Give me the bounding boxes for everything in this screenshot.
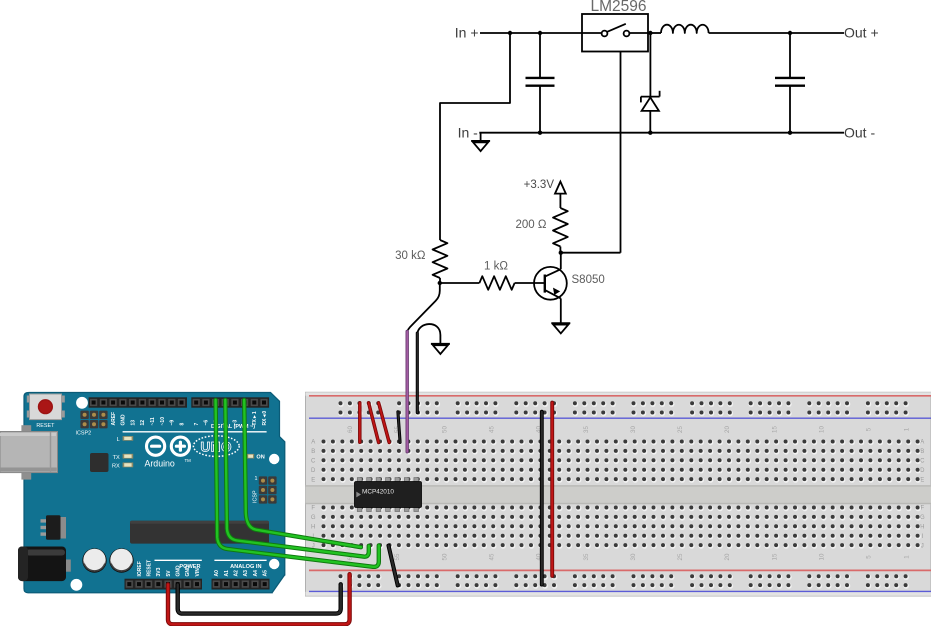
svg-text:C: C (920, 459, 925, 465)
transistor Q1 S8050 (534, 253, 567, 324)
svg-text:~10: ~10 (160, 417, 166, 426)
Arduino power & analog headers (125, 560, 270, 590)
svg-text:20: 20 (724, 553, 731, 560)
svg-text:30: 30 (630, 553, 637, 560)
svg-text:B: B (311, 449, 315, 455)
svg-text:L: L (117, 437, 120, 443)
svg-text:ICSP2: ICSP2 (76, 431, 92, 437)
power +3.3V (555, 182, 566, 194)
wire R2 to Q1 base (515, 282, 545, 284)
svg-text:15: 15 (771, 426, 778, 433)
svg-text:E: E (920, 477, 924, 483)
svg-text:F: F (920, 506, 924, 512)
wire black jumper (blue rail to row A col55) (398, 412, 400, 443)
Arduino LEDs L TX RX (112, 436, 133, 469)
svg-text:IOREF: IOREF (137, 561, 143, 576)
svg-text:Out +: Out + (844, 25, 879, 41)
IC U1 LM2596 (internal switch) (582, 14, 648, 52)
wire LM2596 feedback pin down (620, 52, 622, 253)
svg-text:A0: A0 (214, 570, 220, 577)
svg-text:1: 1 (903, 427, 910, 431)
svg-text:RESET: RESET (36, 423, 55, 429)
svg-text:3V3: 3V3 (156, 567, 162, 576)
wire switch output node (648, 31, 661, 35)
Arduino mounting holes (71, 397, 280, 591)
svg-text:TM: TM (185, 458, 192, 463)
svg-text:In +: In + (455, 25, 479, 41)
svg-text:50: 50 (441, 553, 448, 560)
Arduino ICSP header (253, 476, 277, 504)
svg-text:7: 7 (194, 423, 200, 426)
svg-text:1: 1 (255, 476, 258, 482)
label 1 kOhm (484, 260, 508, 272)
inductor L1 (661, 25, 709, 33)
Arduino crystal (90, 453, 109, 472)
svg-text:RESET: RESET (146, 560, 152, 577)
svg-text:B: B (920, 449, 924, 455)
svg-text:1: 1 (903, 555, 910, 559)
svg-text:1 kΩ: 1 kΩ (484, 260, 508, 272)
svg-text:F: F (311, 506, 315, 512)
svg-text:25: 25 (677, 553, 684, 560)
wire bottom rail In- to Out- (479, 131, 844, 135)
svg-text:+3.3V: +3.3V (524, 179, 555, 191)
svg-text:45: 45 (489, 426, 496, 433)
svg-text:20: 20 (724, 426, 731, 433)
svg-text:45: 45 (489, 553, 496, 560)
node Q1 collector / R3 bottom (559, 251, 621, 255)
label Out - (844, 125, 875, 141)
wire red vertical (top + rail to bottom + rail) (550, 403, 554, 576)
svg-text:50: 50 (441, 426, 448, 433)
svg-text:15: 15 (771, 553, 778, 560)
svg-text:GND: GND (121, 414, 127, 426)
svg-text:D: D (311, 468, 316, 474)
svg-text:35: 35 (583, 553, 590, 560)
svg-text:RX◄0: RX◄0 (262, 411, 268, 426)
svg-text:13: 13 (131, 420, 137, 426)
ground at Q1 emitter (551, 323, 570, 333)
wire purple (wiper to schematic) (406, 332, 409, 452)
wire green 1 (digital pin 2 to breadboard row J) (244, 400, 361, 547)
breadboard (306, 392, 931, 596)
wire 30k junction to purple wire (curve) (407, 283, 440, 332)
Arduino power jack (18, 547, 71, 582)
diode D1 (catch diode) (641, 33, 660, 133)
capacitor C1 (input) (526, 33, 555, 133)
Arduino reset button (27, 394, 65, 429)
svg-text:8: 8 (179, 423, 185, 426)
svg-text:TX: TX (113, 455, 120, 461)
svg-text:E: E (311, 477, 315, 483)
svg-text:MCP42010: MCP42010 (362, 488, 394, 495)
resistor R2 1 kOhm (479, 276, 514, 290)
label LM2596 (590, 0, 646, 15)
svg-text:A3: A3 (243, 570, 249, 577)
wire red jumper 2 (+rail to row A col57) (369, 403, 379, 443)
ground symbol near breadboard (hook) (417, 324, 450, 354)
svg-text:5: 5 (866, 427, 873, 431)
node In+ / feedback tap (508, 31, 512, 35)
svg-text:A1: A1 (224, 570, 230, 577)
svg-text:G: G (311, 515, 316, 521)
svg-text:In -: In - (458, 125, 479, 141)
wire red power (5V to breadboard + rail) (168, 574, 350, 624)
svg-text:~11: ~11 (150, 417, 156, 425)
svg-text:POWER: POWER (179, 564, 200, 570)
wire black (schematic ground to blue rail) (416, 333, 419, 413)
label 200 Ohm (516, 219, 547, 231)
Arduino voltage regulator (41, 515, 67, 540)
Arduino ICSP2 header (76, 411, 108, 437)
resistor R3 200 Ohm (553, 194, 568, 253)
resistor R1 30 kOhm (433, 240, 448, 278)
Arduino electrolytic capacitors (82, 548, 133, 572)
svg-text:5V: 5V (166, 570, 172, 577)
svg-text:5: 5 (866, 555, 873, 559)
wire R1 to R2 (440, 282, 480, 284)
Arduino logo (145, 437, 192, 469)
svg-text:30 kΩ: 30 kΩ (395, 250, 426, 262)
wire green 3 (digital pin ~5 to breadboard row J) (216, 400, 379, 567)
svg-text:35: 35 (583, 426, 590, 433)
svg-text:H: H (311, 525, 315, 531)
svg-text:AREF: AREF (111, 412, 117, 426)
svg-text:ON: ON (256, 455, 264, 461)
svg-text:G: G (920, 515, 925, 521)
svg-text:ICSP: ICSP (253, 490, 259, 503)
ground at In- (471, 133, 490, 151)
wire black slanted jumper (row J to bottom rail) (389, 546, 398, 586)
svg-text:~6: ~6 (204, 420, 210, 426)
wire black power (GND to breadboard - rail) (178, 584, 341, 613)
svg-text:200 Ω: 200 Ω (516, 219, 547, 231)
svg-text:H: H (920, 525, 924, 531)
svg-text:25: 25 (677, 426, 684, 433)
wire L1 to Out+ (709, 31, 844, 35)
Arduino UNO oval (193, 436, 239, 457)
label In - (458, 125, 479, 141)
svg-text:~9: ~9 (170, 420, 176, 426)
svg-text:RX: RX (112, 464, 120, 470)
node R1 bottom / base network (438, 278, 442, 285)
svg-text:10: 10 (819, 553, 826, 560)
svg-text:10: 10 (819, 426, 826, 433)
wire black vertical (top blue rail to bottom rail) (540, 412, 544, 585)
svg-text:60: 60 (347, 426, 354, 433)
wire green 2 (digital pin 4 to breadboard row J) (225, 400, 368, 557)
label Out + (844, 25, 879, 41)
svg-text:ANALOG IN: ANALOG IN (230, 564, 261, 570)
wire red jumper 3 (+rail to row A col56) (379, 403, 390, 443)
wire In+ rail (480, 32, 582, 34)
svg-text:D: D (920, 468, 925, 474)
Arduino Uno board (24, 393, 285, 593)
wire red jumper 1 (+rail to row A col59) (358, 403, 362, 442)
svg-text:LM2596: LM2596 (590, 0, 646, 15)
svg-text:12: 12 (140, 420, 146, 426)
Arduino digital headers (89, 397, 270, 432)
svg-text:30: 30 (630, 426, 637, 433)
Arduino USB connector (0, 425, 58, 479)
label S8050 (572, 274, 605, 286)
label 30 kOhm (395, 250, 426, 262)
svg-text:Arduino: Arduino (145, 459, 175, 469)
svg-text:S8050: S8050 (572, 274, 605, 286)
label +3.3V (524, 179, 555, 191)
svg-text:C: C (311, 459, 316, 465)
label In + (455, 25, 479, 41)
svg-text:Out -: Out - (844, 125, 875, 141)
svg-text:A2: A2 (234, 570, 240, 577)
svg-text:55: 55 (394, 553, 401, 560)
IC MCP42010 on breadboard (355, 478, 422, 512)
svg-text:A: A (920, 440, 924, 446)
svg-text:A5: A5 (263, 570, 269, 577)
svg-text:A4: A4 (253, 570, 259, 577)
Arduino ON led (247, 454, 265, 461)
Arduino ATmega chip (130, 521, 269, 544)
wire feedback from In+ down-left (440, 33, 510, 240)
node input cap top (538, 31, 542, 35)
capacitor C2 (output) (775, 33, 805, 133)
svg-text:J: J (921, 543, 924, 549)
svg-text:A: A (311, 440, 315, 446)
